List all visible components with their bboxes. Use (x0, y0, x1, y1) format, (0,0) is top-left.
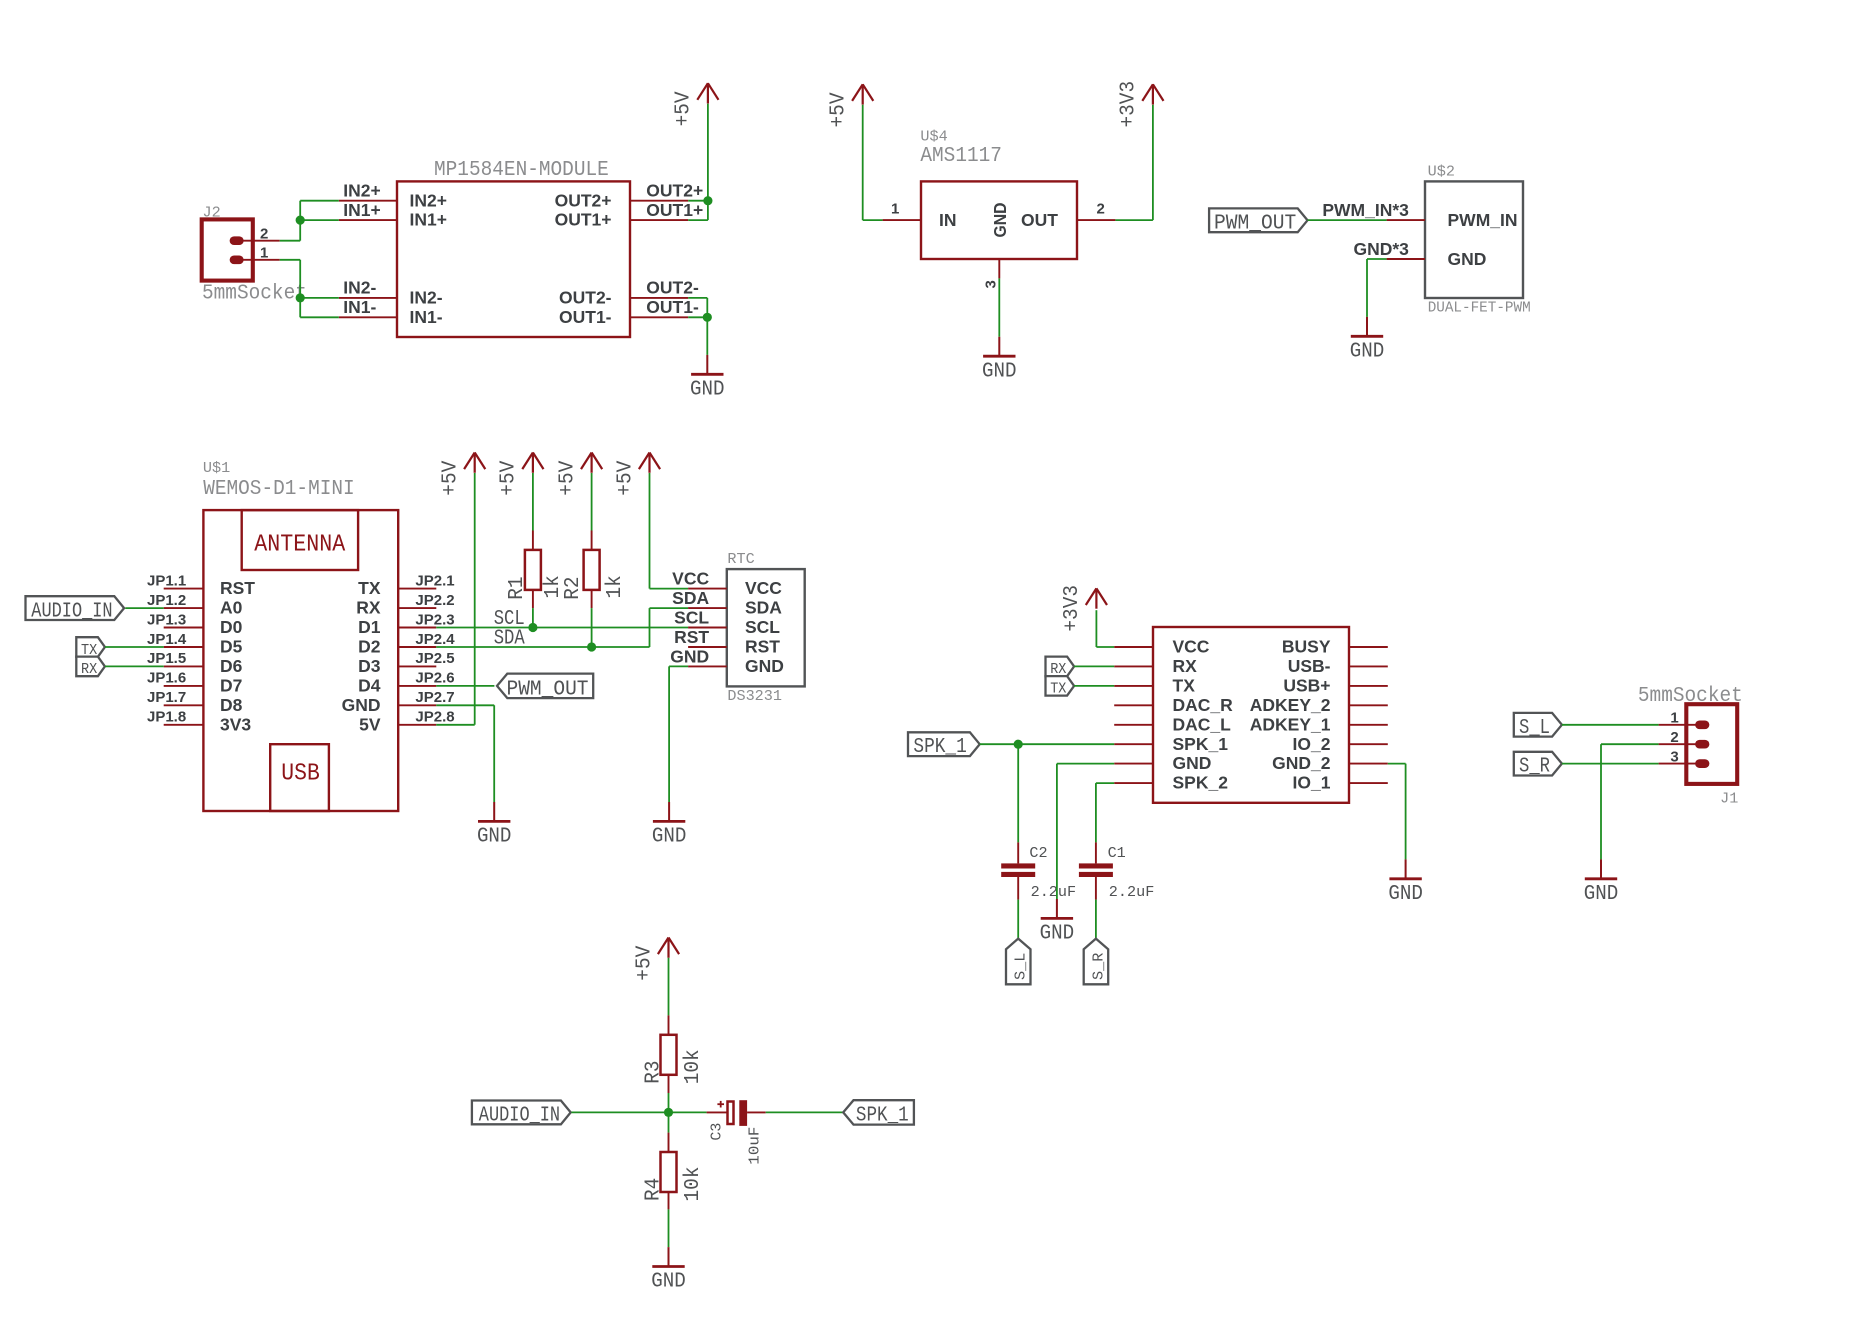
svg-text:C1: C1 (1108, 845, 1126, 862)
svg-text:GND: GND (342, 695, 381, 715)
svg-text:1: 1 (1670, 710, 1678, 727)
svg-text:BUSY: BUSY (1282, 637, 1331, 657)
svg-text:SPK_1: SPK_1 (1173, 734, 1229, 754)
svg-text:2: 2 (1097, 201, 1105, 218)
svg-text:SPK_2: SPK_2 (1173, 773, 1229, 793)
svg-text:IN2-: IN2- (410, 288, 443, 308)
svg-text:SDA: SDA (745, 598, 782, 618)
svg-text:RX: RX (356, 598, 381, 618)
svg-text:GND: GND (1350, 341, 1385, 364)
svg-text:C2: C2 (1029, 845, 1047, 862)
svg-text:ANTENNA: ANTENNA (254, 532, 346, 559)
svg-text:GND: GND (652, 826, 687, 849)
svg-text:+5V: +5V (556, 460, 579, 495)
svg-text:S_L: S_L (1519, 717, 1550, 740)
svg-text:VCC: VCC (745, 578, 782, 598)
svg-text:GND: GND (1040, 923, 1075, 946)
svg-text:AUDIO_IN: AUDIO_IN (31, 600, 112, 623)
svg-text:SCL: SCL (745, 617, 780, 637)
svg-text:RX: RX (1173, 656, 1198, 676)
svg-text:TX: TX (1050, 681, 1066, 698)
svg-text:IN2+: IN2+ (343, 180, 380, 200)
svg-text:10k: 10k (682, 1049, 705, 1084)
svg-text:DS3231: DS3231 (727, 688, 782, 705)
svg-text:2.2uF: 2.2uF (1031, 884, 1077, 901)
svg-text:+5V: +5V (440, 460, 463, 495)
svg-text:JP2.7: JP2.7 (415, 689, 454, 706)
svg-text:OUT1+: OUT1+ (555, 210, 612, 230)
svg-text:SCL: SCL (674, 608, 709, 628)
svg-text:JP2.2: JP2.2 (415, 592, 454, 609)
svg-text:GND: GND (1584, 883, 1619, 906)
svg-text:GND: GND (477, 826, 512, 849)
svg-text:A0: A0 (220, 598, 243, 618)
svg-text:JP1.4: JP1.4 (147, 631, 187, 648)
svg-text:D2: D2 (358, 637, 381, 657)
svg-text:PWM_IN: PWM_IN (1448, 210, 1518, 230)
svg-text:GND: GND (1388, 883, 1423, 906)
svg-text:3: 3 (982, 280, 999, 288)
svg-text:1: 1 (891, 201, 899, 218)
svg-text:JP2.3: JP2.3 (415, 611, 454, 628)
svg-text:U$4: U$4 (920, 129, 947, 146)
svg-text:GND: GND (651, 1271, 686, 1294)
svg-text:D6: D6 (220, 656, 243, 676)
svg-text:TX: TX (1173, 676, 1196, 696)
svg-text:+5V: +5V (673, 91, 696, 126)
svg-text:D7: D7 (220, 676, 242, 696)
svg-text:TX: TX (358, 578, 381, 598)
svg-text:OUT2-: OUT2- (646, 278, 699, 298)
svg-text:RST: RST (220, 578, 255, 598)
svg-text:R2: R2 (562, 577, 585, 600)
svg-text:SPK_1: SPK_1 (856, 1104, 909, 1127)
svg-text:+5V: +5V (498, 460, 521, 495)
svg-text:S_L: S_L (1013, 953, 1030, 980)
svg-text:JP1.6: JP1.6 (147, 670, 186, 687)
svg-text:D8: D8 (220, 695, 243, 715)
svg-text:U$2: U$2 (1428, 164, 1455, 181)
svg-text:R1: R1 (506, 577, 529, 600)
svg-text:SDA: SDA (672, 588, 709, 608)
svg-text:GND: GND (1448, 249, 1487, 269)
svg-text:OUT2+: OUT2+ (646, 180, 703, 200)
svg-text:USB-: USB- (1288, 656, 1331, 676)
svg-text:+5V: +5V (633, 945, 656, 980)
svg-text:VCC: VCC (1173, 637, 1210, 657)
svg-text:GND*3: GND*3 (1353, 239, 1409, 259)
svg-text:RTC: RTC (727, 551, 754, 568)
svg-text:S_R: S_R (1519, 756, 1550, 779)
svg-text:D3: D3 (358, 656, 381, 676)
svg-text:RST: RST (674, 627, 709, 647)
svg-text:R3: R3 (642, 1061, 665, 1084)
svg-text:JP1.2: JP1.2 (147, 592, 186, 609)
svg-text:1: 1 (260, 245, 268, 262)
svg-text:VCC: VCC (672, 569, 709, 589)
svg-text:OUT1+: OUT1+ (646, 200, 703, 220)
svg-text:WEMOS-D1-MINI: WEMOS-D1-MINI (203, 478, 355, 501)
svg-text:RX: RX (81, 661, 97, 678)
svg-text:5V: 5V (359, 714, 381, 734)
svg-text:U$1: U$1 (203, 460, 230, 477)
svg-text:2: 2 (1670, 729, 1678, 746)
svg-text:DAC_R: DAC_R (1173, 695, 1234, 715)
svg-text:1k: 1k (604, 575, 627, 598)
svg-text:D4: D4 (358, 676, 381, 696)
svg-text:ADKEY_1: ADKEY_1 (1250, 714, 1331, 734)
svg-text:OUT1-: OUT1- (646, 297, 699, 317)
svg-text:DUAL-FET-PWM: DUAL-FET-PWM (1428, 299, 1531, 316)
svg-text:GND: GND (745, 656, 784, 676)
svg-text:10uF: 10uF (747, 1127, 764, 1165)
svg-text:D5: D5 (220, 637, 243, 657)
svg-text:2.2uF: 2.2uF (1109, 884, 1155, 901)
svg-text:IN2-: IN2- (343, 278, 376, 298)
svg-text:AUDIO_IN: AUDIO_IN (479, 1104, 560, 1127)
svg-text:3V3: 3V3 (220, 714, 251, 734)
svg-text:MP1584EN-MODULE: MP1584EN-MODULE (434, 159, 609, 182)
svg-text:IO_1: IO_1 (1293, 773, 1331, 793)
svg-text:S_R: S_R (1090, 953, 1107, 980)
svg-text:OUT2+: OUT2+ (555, 190, 612, 210)
svg-text:USB: USB (281, 761, 320, 788)
svg-text:JP1.1: JP1.1 (147, 572, 186, 589)
svg-text:JP2.5: JP2.5 (415, 650, 454, 667)
svg-text:GND: GND (1173, 753, 1212, 773)
svg-text:SDA: SDA (494, 628, 525, 651)
svg-text:JP1.8: JP1.8 (147, 709, 186, 726)
svg-text:PWM_OUT: PWM_OUT (507, 678, 589, 701)
svg-text:JP1.7: JP1.7 (147, 689, 186, 706)
svg-text:IN1-: IN1- (343, 297, 376, 317)
svg-text:GND: GND (690, 379, 725, 402)
svg-text:GND: GND (990, 203, 1010, 238)
svg-text:D0: D0 (220, 617, 243, 637)
svg-text:IN1-: IN1- (410, 307, 443, 327)
svg-text:10k: 10k (682, 1167, 705, 1202)
svg-text:+5V: +5V (828, 92, 851, 127)
svg-text:J1: J1 (1720, 791, 1738, 808)
svg-text:ADKEY_2: ADKEY_2 (1250, 695, 1331, 715)
svg-text:C3: C3 (709, 1123, 726, 1141)
svg-text:IN: IN (939, 210, 957, 230)
svg-text:SPK_1: SPK_1 (913, 736, 966, 759)
svg-text:AMS1117: AMS1117 (920, 145, 1002, 168)
svg-text:PWM_OUT: PWM_OUT (1214, 212, 1296, 235)
svg-text:J2: J2 (203, 204, 221, 221)
svg-text:PWM_IN*3: PWM_IN*3 (1322, 200, 1409, 220)
svg-text:OUT: OUT (1021, 210, 1058, 230)
svg-text:GND: GND (670, 646, 709, 666)
svg-text:R4: R4 (642, 1178, 665, 1201)
svg-text:JP2.4: JP2.4 (415, 631, 455, 648)
svg-text:IN1+: IN1+ (410, 210, 447, 230)
svg-text:IN1+: IN1+ (343, 200, 380, 220)
svg-text:OUT2-: OUT2- (559, 288, 612, 308)
svg-text:IO_2: IO_2 (1293, 734, 1331, 754)
svg-text:JP1.3: JP1.3 (147, 611, 186, 628)
svg-text:+3V3: +3V3 (1118, 81, 1141, 128)
svg-text:3: 3 (1670, 748, 1678, 765)
svg-text:USB+: USB+ (1283, 676, 1330, 696)
svg-text:JP2.6: JP2.6 (415, 670, 454, 687)
svg-text:GND_2: GND_2 (1272, 753, 1331, 773)
svg-text:RST: RST (745, 637, 780, 657)
svg-text:IN2+: IN2+ (410, 190, 447, 210)
svg-text:+5V: +5V (614, 460, 637, 495)
svg-text:OUT1-: OUT1- (559, 307, 612, 327)
svg-text:5mmSocket: 5mmSocket (202, 283, 307, 306)
svg-text:JP2.1: JP2.1 (415, 572, 454, 589)
svg-text:JP1.5: JP1.5 (147, 650, 186, 667)
svg-text:GND: GND (982, 360, 1017, 383)
svg-text:2: 2 (260, 226, 268, 243)
svg-text:D1: D1 (358, 617, 381, 637)
svg-text:+3V3: +3V3 (1061, 585, 1084, 632)
svg-text:JP2.8: JP2.8 (415, 709, 454, 726)
svg-text:DAC_L: DAC_L (1173, 714, 1232, 734)
